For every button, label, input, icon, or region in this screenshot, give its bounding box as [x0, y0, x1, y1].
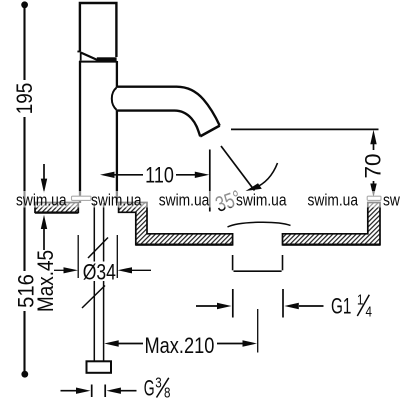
pipe break slash upper: [88, 238, 108, 259]
drain tailpiece: [233, 255, 283, 271]
deck middle Z section: [119, 203, 233, 245]
watermark logo bar right: [367, 196, 381, 200]
G 1 1/4 dimension: [196, 289, 324, 318]
dia 34 dimension: [54, 235, 151, 278]
spout: [117, 87, 220, 137]
spout outlet face: [200, 126, 220, 137]
svg-text:Ø34: Ø34: [83, 260, 116, 285]
svg-text:8: 8: [164, 384, 170, 400]
svg-text:4: 4: [366, 303, 372, 320]
spout root arc: [112, 87, 117, 110]
Max.45 dimension: [43, 164, 45, 250]
dim dot top: [21, 1, 28, 8]
svg-text:swi: swi: [383, 191, 400, 209]
handle lever notch: [77, 52, 98, 61]
35 deg leg line: [221, 146, 255, 191]
faucet handle outline: [80, 3, 117, 57]
foot nut: [87, 361, 112, 373]
svg-text:swim.ua: swim.ua: [236, 191, 287, 209]
faucet body top line: [79, 61, 117, 63]
handle base thick bar: [97, 57, 117, 61]
70 dimension: [373, 143, 375, 185]
faucet body left edge: [79, 61, 81, 203]
drain centerline: [257, 309, 259, 353]
deck bottom emphasis lines: [35, 213, 380, 245]
svg-text:swim.ua: swim.ua: [91, 191, 142, 209]
faucet body right edge upper: [116, 61, 118, 88]
label dia34: [81, 262, 117, 282]
svg-text:G: G: [144, 375, 155, 400]
deck left section: [35, 203, 78, 213]
dim dot bottom: [21, 371, 28, 378]
watermark logo bar: [72, 196, 92, 200]
svg-text:G1: G1: [331, 295, 351, 320]
spout height extension line: [231, 128, 379, 130]
deck right L section: [283, 203, 381, 245]
svg-text:swim.ua: swim.ua: [308, 191, 359, 209]
watermark texts: [16, 191, 400, 209]
G 3/8 dimension: [61, 385, 137, 398]
svg-text:110: 110: [145, 164, 174, 188]
svg-text:3: 3: [155, 374, 161, 391]
svg-text:Max.210: Max.210: [145, 333, 215, 358]
dimension 195-516 line: [23, 5, 25, 374]
svg-text:swim.ua: swim.ua: [16, 191, 67, 209]
svg-text:70: 70: [361, 153, 386, 178]
label G 3/8: [144, 374, 171, 400]
svg-text:swim.ua: swim.ua: [159, 191, 210, 209]
label G1 1/4: [331, 291, 372, 320]
spout tip extension line: [209, 150, 211, 212]
35 deg arc arrow: [251, 163, 278, 189]
supply pipe: [94, 203, 103, 361]
pipe break slash lower: [82, 286, 105, 309]
watermark band: [0, 191, 400, 208]
svg-text:195: 195: [12, 83, 37, 115]
faucet body right edge lower: [116, 110, 118, 203]
Max.210 dimension: [117, 343, 243, 345]
basin break arc: [228, 222, 291, 227]
110 dimension: [114, 174, 195, 176]
svg-text:Max.45: Max.45: [34, 250, 59, 312]
